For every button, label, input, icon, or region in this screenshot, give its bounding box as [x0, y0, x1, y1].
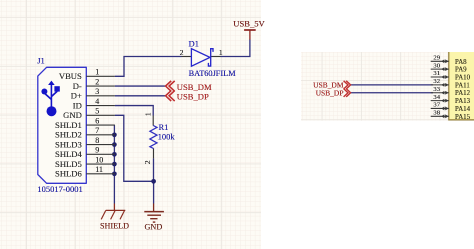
svg-text:GND: GND [63, 110, 82, 120]
svg-text:USB_DP: USB_DP [316, 89, 344, 98]
J1 pin 1 (VBUS) [59, 68, 115, 82]
J1 pin 5 (GND) [63, 107, 115, 121]
MCU pin 33 (PA12) [431, 86, 471, 97]
svg-text:PA15: PA15 [455, 114, 471, 121]
port chevrons USB_DM [166, 81, 175, 91]
svg-text:D+: D+ [71, 91, 82, 101]
wire R1 bottom to ground node [153, 158, 155, 181]
port chevrons USB_DM (right) [344, 81, 351, 89]
J1 pin 6 (SHLD1) [55, 116, 115, 130]
svg-text:8: 8 [95, 136, 99, 145]
connector J1 body [38, 67, 87, 183]
svg-text:VBUS: VBUS [59, 71, 82, 81]
svg-text:29: 29 [433, 55, 440, 62]
port chevrons USB_DP (right) [344, 89, 351, 97]
junction pin 11 on SHLD bus [112, 171, 117, 176]
svg-text:SHLD1: SHLD1 [55, 120, 82, 130]
svg-text:USB_5V: USB_5V [233, 18, 265, 28]
MCU pin 29 (PA8) [431, 55, 467, 66]
ground GND symbol [144, 212, 164, 223]
MCU pin 30 (PA9) [431, 62, 467, 73]
J1 pin 3 (D+) [71, 87, 115, 101]
svg-text:PA13: PA13 [455, 98, 471, 105]
J1 pin 8 (SHLD3) [55, 136, 115, 150]
wire VBUS pin1 to diode D1 anode [115, 57, 182, 77]
USB icon [41, 81, 59, 117]
J1 pin 11 (SHLD6) [55, 165, 115, 179]
svg-text:SHLD3: SHLD3 [55, 139, 82, 149]
chassis ground SHIELD symbol [101, 210, 125, 219]
svg-text:33: 33 [433, 86, 440, 93]
right schematic sheet background [301, 52, 474, 121]
J1 pin 2 (D-) [73, 77, 115, 91]
svg-text:100k: 100k [158, 132, 176, 142]
svg-text:R1: R1 [159, 122, 169, 132]
wire USB_DM to PA11 [351, 84, 433, 86]
svg-text:7: 7 [95, 126, 99, 135]
wire SHLD bus to SHIELD stem (dark red) [113, 204, 115, 211]
svg-text:USB_DP: USB_DP [177, 92, 209, 102]
diode D1 (Schottky BAT60JFILM) [191, 49, 213, 67]
junction pin 8 on SHLD bus [112, 142, 117, 147]
svg-text:PA10: PA10 [455, 75, 471, 82]
MCU pin 37 (PA14) [431, 102, 471, 113]
junction ground node [151, 179, 156, 184]
MCU pin 31 (PA10) [431, 70, 471, 81]
svg-text:SHLD6: SHLD6 [55, 169, 82, 179]
MCU pin 38 (PA15) [431, 110, 471, 121]
svg-text:BAT60JFILM: BAT60JFILM [189, 69, 237, 78]
wire D- pin2 to USB_DM port [115, 85, 165, 87]
svg-text:1: 1 [219, 48, 223, 57]
J1 pin 4 (ID) [73, 97, 115, 111]
MCU pin 32 (PA11) [431, 78, 471, 89]
svg-text:D1: D1 [189, 39, 199, 49]
svg-text:34: 34 [433, 94, 440, 101]
wire ID pin4 to R1 top [115, 106, 153, 116]
wire D1 cathode to USB_5V power port [221, 39, 250, 56]
resistor R1 zigzag [150, 126, 157, 149]
svg-text:SHIELD: SHIELD [100, 221, 129, 230]
svg-text:30: 30 [433, 62, 440, 69]
svg-text:37: 37 [433, 102, 440, 109]
svg-text:USB_DM: USB_DM [177, 82, 212, 92]
svg-text:38: 38 [433, 110, 440, 117]
svg-text:31: 31 [433, 70, 440, 77]
svg-text:1: 1 [143, 112, 152, 116]
wire GND pin5 down to ground node [115, 115, 154, 181]
svg-text:2: 2 [95, 77, 99, 86]
svg-text:2: 2 [143, 160, 152, 164]
port chevrons USB_DP [166, 91, 175, 102]
svg-text:SHLD4: SHLD4 [55, 149, 82, 159]
diode D1 pin stubs [182, 56, 192, 58]
svg-text:32: 32 [433, 78, 440, 85]
wire ground node to GND symbol [153, 181, 155, 203]
svg-text:PA8: PA8 [455, 59, 467, 66]
J1 pin 9 (SHLD4) [55, 146, 115, 160]
wire USB_DP to PA12 [351, 92, 433, 94]
svg-text:J1: J1 [37, 55, 45, 65]
svg-text:PA11: PA11 [455, 82, 470, 89]
svg-text:1: 1 [95, 68, 99, 77]
junction pin 9 on SHLD bus [112, 152, 117, 157]
svg-text:SHLD2: SHLD2 [55, 130, 82, 140]
svg-text:5: 5 [95, 107, 99, 116]
MCU U1 body (partial, yellow) [449, 52, 474, 120]
resistor R1 pin stubs [152, 116, 154, 126]
svg-text:11: 11 [95, 165, 103, 174]
left schematic sheet background [0, 0, 261, 249]
MCU pin 34 (PA13) [431, 94, 471, 105]
svg-text:3: 3 [95, 87, 99, 96]
power port USB_5V [244, 30, 256, 40]
svg-text:PA12: PA12 [455, 90, 471, 97]
svg-text:2: 2 [180, 48, 184, 57]
junction pin 10 on SHLD bus [112, 162, 117, 167]
svg-text:4: 4 [95, 97, 99, 106]
svg-text:PA9: PA9 [455, 67, 467, 74]
J1 pin 7 (SHLD2) [55, 126, 115, 140]
wire D+ pin3 to USB_DP port [115, 95, 165, 97]
svg-text:ID: ID [73, 100, 82, 110]
svg-text:SHLD5: SHLD5 [55, 159, 82, 169]
svg-text:PA14: PA14 [455, 106, 471, 113]
svg-text:6: 6 [95, 116, 99, 125]
SHLD bus wire pins 6-11 to SHIELD symbol [113, 125, 115, 203]
junction pin 7 on SHLD bus [112, 132, 117, 137]
svg-text:D-: D- [73, 81, 82, 91]
svg-text:GND: GND [145, 223, 163, 232]
svg-text:10: 10 [95, 155, 103, 164]
svg-text:105017-0001: 105017-0001 [37, 184, 82, 194]
J1 pin 10 (SHLD5) [55, 155, 115, 169]
svg-text:9: 9 [95, 146, 99, 155]
wire ground node to GND stem (dark red) [153, 204, 155, 212]
